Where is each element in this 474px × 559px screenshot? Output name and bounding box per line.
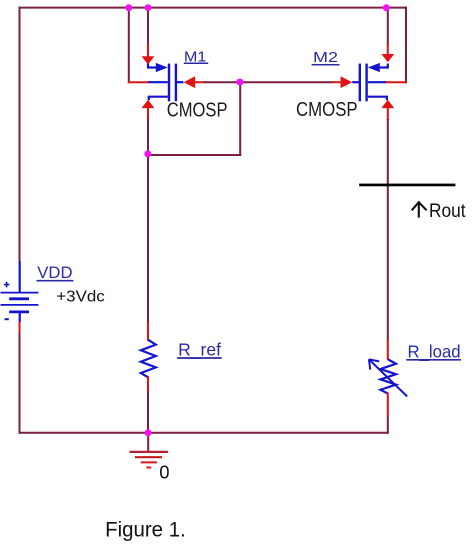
resistor R_load variable arrow [369,359,407,396]
battery V1 plate 3 [1,304,39,306]
junction dot top rail M1 bulk [125,4,132,11]
wire M1 drain red tail [147,107,149,121]
label M1 [184,48,208,65]
svg-text:+3Vdc: +3Vdc [56,289,104,306]
transistor M2 bulk lead [368,81,386,83]
current arrow M2 gate [341,76,353,88]
wire M2 bulk red segment [385,81,407,83]
wire M2 gate red tail [333,81,344,83]
wire M2 source drop [387,8,389,45]
svg-text:Figure 1.: Figure 1. [105,518,186,541]
resistor R_ref zigzag [141,340,156,378]
ground bar 4 [146,467,151,469]
wire top VDD rail [19,7,408,9]
transistor M2 gate bar [359,64,361,102]
wire battery red tail [19,322,21,335]
ground bar 3 [141,461,157,463]
wire M1 drain to node [147,119,149,155]
resistor R_load top lead [387,339,389,360]
resistor R_load zigzag [381,359,397,393]
label R_load [406,341,461,362]
battery V1 plate 2 [9,297,29,300]
junction dot drain node [144,150,151,157]
wire feedback horizontal [147,154,241,156]
current arrow M1 drain [142,100,155,108]
transistor M1 gate stub [176,81,184,83]
resistor R_ref bottom lead [147,376,149,393]
transistor M2 source lead [379,64,388,68]
transistor M1 channel bar [168,64,170,102]
transistor M2 gate stub [352,81,360,83]
label VDD [36,263,73,282]
ground bar 1 [130,451,168,453]
wire bottom rail [19,432,389,434]
svg-text:Rout: Rout [429,201,466,222]
transistor M2 channel bar [365,64,367,102]
svg-text:CMOSP: CMOSP [167,100,228,122]
transistor M1 source arrow [156,63,168,72]
wire M1 bulk red segment [128,81,149,83]
ground stub [147,433,149,452]
current arrow M1 source [142,56,155,64]
current arrow M2 source [381,54,394,62]
svg-text:0: 0 [159,461,169,482]
wire feedback vertical [239,81,241,156]
wire M2 drain to R_load [387,119,389,341]
label M2 [312,49,340,66]
transistor M1 drain lead [149,97,168,101]
junction dot ground rail [145,429,152,436]
wire M1 source red tail [147,44,149,58]
resistor R_ref top lead [147,322,149,342]
battery plus mark [4,282,10,288]
transistor M2 drain lead [368,97,387,101]
junction dot top rail M2 source [383,4,390,11]
svg-text:VDD: VDD [37,263,72,282]
junction dot gate bus [236,79,243,86]
svg-text:CMOSP: CMOSP [296,99,358,121]
battery V1 plate 1 [1,292,39,294]
transistor M1 bulk lead [148,81,168,83]
battery V1 plate 4 [9,310,29,313]
wire R_load to bottom rail [387,416,389,434]
transistor M2 source arrow [368,63,380,72]
battery V1 top stub [19,261,21,293]
Rout marker bar [359,184,455,187]
battery minus mark [5,318,9,320]
transistor M1 gate bar [175,64,177,102]
label Rout arrow glyph [412,202,427,217]
wire node to R_ref [147,154,149,323]
ground bar 2 [135,456,162,458]
wire R_ref to ground rail [147,392,149,434]
junction dot top rail M1 source [145,4,152,11]
wire M2 source red tail [387,44,389,57]
battery V1 bottom stub [19,312,21,323]
wire gate bus [204,81,334,83]
resistor R_load bottom lead [387,393,389,417]
current arrow M2 drain [381,100,394,108]
wire M1 gate red tail [195,81,206,83]
wire M1 bulk drop [128,7,130,84]
transistor M1 source lead [148,64,157,68]
wire M1 source drop [147,8,149,46]
wire M2 drain red tail [387,107,389,121]
wire M2 bulk drop [405,7,407,84]
wire left VDD rail [19,7,21,262]
label R_ref [177,340,222,361]
wire battery to bottom rail [19,332,21,434]
current arrow M1 gate [184,76,196,88]
svg-text:M2: M2 [313,49,338,66]
